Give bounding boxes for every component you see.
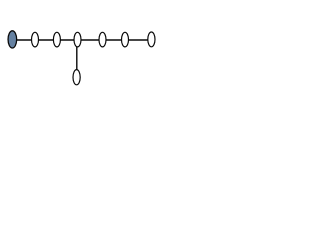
node E [99, 32, 106, 47]
node F [122, 32, 129, 47]
node G [148, 32, 155, 47]
wire: horizontal chain line [12, 39, 151, 41]
node C [53, 32, 60, 47]
node B [32, 32, 39, 47]
wire: vertical drop from node D [76, 46, 78, 71]
node D (with child below) [74, 32, 81, 47]
node H (below D) [73, 70, 80, 85]
node root (filled) [8, 31, 17, 48]
